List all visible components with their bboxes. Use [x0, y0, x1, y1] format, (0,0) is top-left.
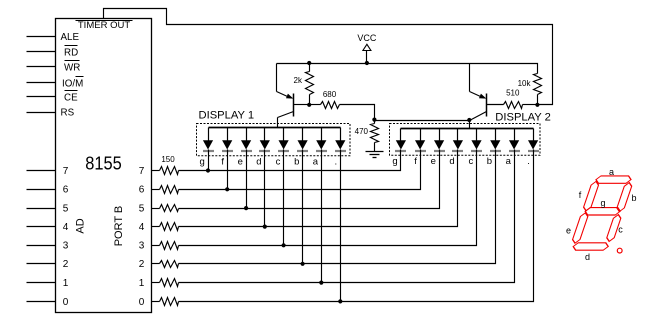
resistor 150 on PB6 row: [152, 186, 179, 194]
VCC power symbol: [357, 33, 377, 64]
svg-text:7: 7: [139, 166, 145, 177]
wire display1 segment g to row PB7: [208, 154, 210, 171]
LED display2 segment c: [471, 129, 482, 154]
wire control pin ALE: [27, 36, 56, 38]
junction dot PB2 / display1 segment b: [301, 262, 305, 266]
junction dot Q2 collector / display 2 anode: [467, 118, 471, 122]
resistor 10k (rail to node C): [534, 74, 542, 105]
wire control pin CE: [27, 96, 56, 98]
svg-text:a: a: [609, 167, 614, 177]
wire display2 segment e lead: [439, 154, 441, 156]
resistor 150 on PB2 row: [152, 261, 179, 268]
svg-text:d: d: [256, 157, 261, 168]
resistor 470 (node B to ground): [371, 120, 379, 152]
LED display1 segment a: [316, 128, 327, 154]
svg-text:510: 510: [506, 88, 520, 97]
junction dot VCC on rail: [365, 61, 369, 65]
svg-text:g: g: [200, 157, 205, 168]
junction dot node C (510 / 10k / timer net): [535, 103, 539, 107]
wire AD4 (left pin): [27, 226, 56, 228]
svg-text:a: a: [506, 156, 512, 167]
transistor Q1 (PNP, display 1 driver): [277, 64, 310, 128]
svg-text:f: f: [414, 156, 417, 167]
resistor 150 on PB4 row: [152, 223, 179, 231]
wire display1 segment d to row PB4: [264, 154, 266, 227]
wire display 2 common anode bus: [401, 128, 534, 130]
wire display2 segment b lead: [495, 154, 497, 156]
display 1 dotted box: [197, 124, 351, 156]
LED display1 segment g: [203, 128, 214, 154]
junction dot node B (680 / 470 / wire to Q2 collector): [372, 118, 376, 122]
wire display 1 common anode bus: [209, 127, 341, 129]
svg-text:c: c: [618, 224, 623, 234]
pin label CE: [64, 91, 78, 104]
LED display1 segment b: [297, 128, 308, 154]
display 2 dotted box: [390, 124, 541, 156]
svg-text:1: 1: [139, 278, 145, 289]
svg-text:b: b: [631, 193, 636, 203]
svg-text:g: g: [392, 156, 397, 167]
svg-text:VCC: VCC: [357, 33, 377, 43]
svg-text:0: 0: [139, 297, 145, 308]
pin label RD: [64, 46, 78, 59]
seven-segment legend (red): [569, 176, 635, 250]
svg-text:c: c: [469, 156, 474, 167]
wire row PB7 to displays: [179, 156, 401, 171]
svg-text:2k: 2k: [294, 76, 303, 85]
legend decimal point o (red): [617, 248, 622, 253]
wire display2 segment d lead: [457, 154, 459, 156]
LED display1 segment e: [241, 128, 252, 154]
wire display1 segment b to row PB2: [302, 154, 304, 264]
svg-text:RD: RD: [64, 47, 78, 58]
junction dot PB1 / display1 segment a: [319, 281, 323, 285]
wire VCC rail: [277, 64, 538, 74]
resistor 150 on PB1 row: [152, 279, 179, 287]
wire display2 segment . lead: [533, 154, 535, 156]
svg-text:IO/M: IO/M: [62, 79, 83, 90]
svg-text:b: b: [487, 156, 492, 167]
svg-text:f: f: [221, 157, 224, 168]
wire display2 segment f lead: [420, 154, 422, 156]
svg-text:DISPLAY 2: DISPLAY 2: [495, 112, 551, 124]
wire display1 segment e to row PB5: [246, 154, 248, 209]
LED display2 segment g: [395, 129, 406, 154]
svg-text:PORT B: PORT B: [113, 206, 125, 247]
svg-text:6: 6: [139, 185, 145, 196]
svg-text:RS: RS: [61, 108, 75, 119]
wire display2 segment a lead: [514, 154, 516, 156]
svg-text:d: d: [585, 252, 590, 262]
pin label TIMER OUT (with overline): [76, 20, 133, 31]
junction dot PB5 / display1 segment e: [244, 206, 248, 210]
svg-text:680: 680: [323, 90, 337, 99]
wire display2 segment c lead: [476, 154, 478, 156]
svg-text:4: 4: [63, 222, 69, 233]
svg-text:470: 470: [355, 127, 369, 136]
svg-text:1: 1: [63, 278, 69, 289]
resistor 150 on PB0 row: [152, 298, 179, 306]
svg-text:2: 2: [139, 259, 145, 270]
LED display2 segment e: [434, 129, 445, 154]
junction dot PB4 / display1 segment d: [263, 225, 267, 229]
svg-text:TIMER OUT: TIMER OUT: [78, 20, 130, 31]
svg-text:c: c: [276, 157, 281, 168]
resistor 2k (rail to node A): [306, 64, 314, 105]
svg-text:4: 4: [139, 222, 145, 233]
resistor 150 on PB3 row: [152, 242, 179, 250]
wire row PB5 to displays: [179, 156, 440, 209]
wire control pin RD: [27, 51, 56, 53]
LED display1 segment d: [259, 128, 270, 154]
LED display2 segment .: [528, 129, 539, 154]
svg-text:DISPLAY 1: DISPLAY 1: [199, 110, 255, 122]
svg-text:0: 0: [63, 297, 69, 308]
LED display2 segment d: [452, 129, 463, 154]
svg-text:.: .: [527, 156, 530, 167]
pin label WR: [64, 61, 80, 74]
wire row PB3 to displays: [179, 156, 477, 246]
svg-text:d: d: [449, 156, 454, 167]
svg-text:WR: WR: [64, 62, 80, 73]
IC U1 8155 outline: [56, 19, 152, 313]
svg-text:.: .: [334, 157, 337, 168]
wire AD2 (left pin): [27, 263, 56, 265]
LED display2 segment a: [509, 129, 520, 154]
svg-text:150: 150: [161, 155, 175, 164]
svg-text:g: g: [600, 198, 605, 208]
LED display1 segment c: [278, 128, 289, 154]
svg-text:e: e: [238, 157, 243, 168]
svg-text:ALE: ALE: [61, 32, 80, 43]
LED display1 segment f: [222, 128, 233, 154]
svg-text:5: 5: [139, 204, 145, 215]
wire AD1 (left pin): [27, 282, 56, 284]
wire node B to Q2 collector: [375, 120, 470, 122]
wire display1 segment f to row PB6: [227, 154, 229, 190]
LED display2 segment b: [490, 129, 501, 154]
wire row PB0 to displays: [179, 156, 534, 302]
transistor Q2 (PNP, display 2 driver): [470, 64, 504, 129]
junction dot PB6 / display1 segment f: [225, 187, 229, 191]
resistor 510 (Q2 base to node C): [504, 102, 538, 109]
svg-text:e: e: [566, 226, 571, 236]
resistor 150 on PB7 row: [152, 167, 179, 175]
wire control pin WR: [27, 66, 56, 68]
wire AD7 (left pin): [27, 170, 56, 172]
svg-text:b: b: [294, 157, 299, 168]
junction dot PB0 / display1 segment .: [338, 299, 342, 303]
wire control pin RS: [27, 112, 56, 114]
junction dot PB7 / display1 segment g: [206, 168, 210, 172]
wire AD5 (left pin): [27, 208, 56, 210]
svg-text:6: 6: [63, 185, 69, 196]
wire row PB4 to displays: [179, 156, 458, 227]
wire display1 segment a to row PB1: [321, 154, 323, 283]
wire AD3 (left pin): [27, 245, 56, 247]
svg-text:AD: AD: [75, 218, 87, 233]
svg-text:CE: CE: [64, 93, 78, 104]
resistor 680 (node A to node B): [310, 102, 375, 120]
LED display2 segment f: [415, 129, 426, 154]
svg-text:2: 2: [63, 259, 69, 270]
wire row PB6 to displays: [179, 156, 421, 190]
wire AD6 (left pin): [27, 189, 56, 191]
svg-text:e: e: [431, 156, 436, 167]
svg-text:3: 3: [63, 241, 69, 252]
svg-text:3: 3: [139, 241, 145, 252]
svg-text:7: 7: [63, 166, 69, 177]
wire row PB1 to displays: [179, 156, 515, 283]
wire AD0 (left pin): [27, 301, 56, 303]
wire control pin IO/M: [27, 82, 56, 84]
wire display2 segment g lead: [400, 154, 402, 156]
svg-text:5: 5: [63, 204, 69, 215]
svg-text:10k: 10k: [518, 79, 532, 88]
junction dot node A (Q1 base / 2k / 680): [307, 103, 311, 107]
junction dot 2k top on rail: [307, 61, 311, 65]
wire TIMER OUT net (chip top to node C): [104, 9, 553, 105]
wire display1 segment . to row PB0: [340, 154, 342, 302]
resistor 150 on PB5 row: [152, 205, 179, 212]
pin label IO/M: [62, 77, 84, 90]
ground symbol: [366, 152, 384, 158]
wire row PB2 to displays: [179, 156, 496, 264]
svg-text:8155: 8155: [85, 153, 122, 174]
LED display1 segment .: [335, 128, 346, 154]
svg-text:f: f: [579, 190, 582, 200]
wire display1 segment c to row PB3: [283, 154, 285, 246]
svg-text:a: a: [313, 157, 319, 168]
junction dot PB3 / display1 segment c: [282, 243, 286, 247]
